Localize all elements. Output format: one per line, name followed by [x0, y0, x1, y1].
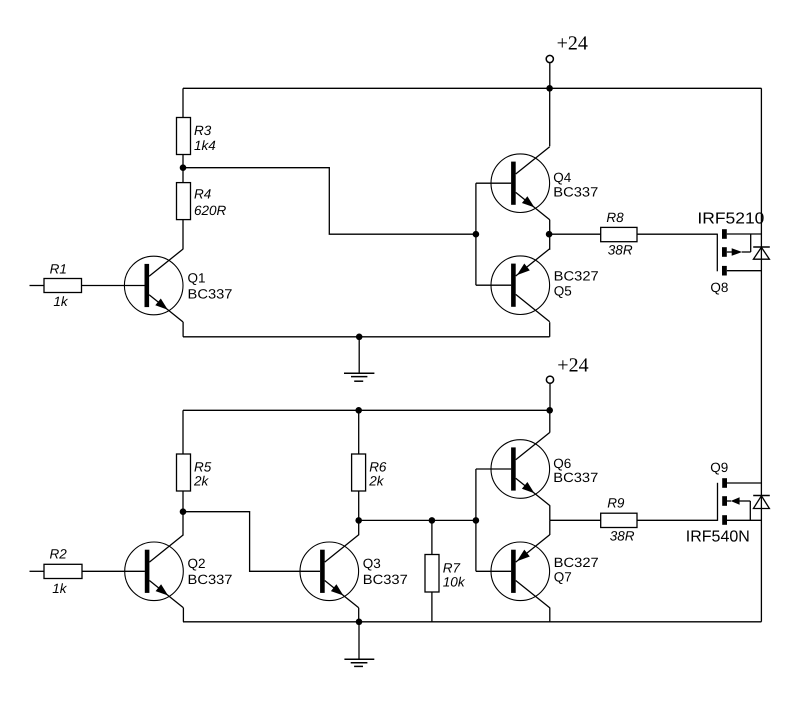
svg-text:Q1: Q1: [188, 270, 206, 285]
wire: R7 column top: [431, 520, 433, 555]
wire: rail to R3: [182, 88, 184, 118]
wire: R6 column: [358, 410, 360, 454]
wire: +24 to Q4 collector: [549, 88, 551, 146]
resistor R2: [44, 547, 82, 596]
svg-text:Q5: Q5: [554, 284, 572, 299]
node: push-pull output (top): [546, 231, 553, 238]
svg-text:R3: R3: [194, 123, 212, 138]
svg-text:IRF5210: IRF5210: [697, 211, 764, 228]
wire: supply rail (bottom section): [183, 409, 550, 411]
diode: Q9 body diode: [753, 496, 770, 509]
svg-text:10k: 10k: [443, 575, 466, 590]
transistor Q1: [124, 249, 232, 322]
wire: Q7 collector to bottom rail: [549, 608, 551, 622]
supply terminal +24 (bottom): [546, 354, 588, 410]
wire: Q3 collector up to node: [358, 520, 360, 535]
wire: R3/R4 node to Q4/Q5 base rail: [183, 168, 476, 235]
svg-text:Q3: Q3: [363, 556, 381, 571]
node: +24 bottom junction: [546, 407, 553, 414]
svg-text:BC337: BC337: [188, 572, 233, 587]
svg-text:1k: 1k: [52, 581, 68, 596]
wire: Q1 emitter to ground rail: [182, 322, 184, 337]
svg-text:R4: R4: [194, 186, 211, 201]
svg-text:IRF540N: IRF540N: [686, 529, 750, 546]
wire: base stub Q6: [476, 468, 511, 470]
svg-text:2k: 2k: [368, 474, 385, 489]
node: +24 top junction: [546, 85, 553, 92]
node: R7 top junction: [429, 517, 436, 524]
wire: R7 to bottom rail: [431, 592, 433, 622]
svg-text:38R: 38R: [610, 528, 635, 543]
svg-text:+24: +24: [557, 33, 588, 55]
wire: R1 to Q1 base: [82, 285, 145, 287]
wire: R4 to Q1 collector: [182, 220, 184, 250]
wire: bottom ground rail: [183, 621, 761, 623]
svg-text:R7: R7: [443, 561, 461, 576]
node: ground tap (top): [356, 334, 363, 341]
transistor Q3: [300, 535, 408, 608]
svg-text:1k4: 1k4: [194, 138, 216, 153]
svg-text:R1: R1: [50, 261, 67, 276]
node: base feed junction (bottom): [473, 517, 480, 524]
wire: output to Q7 emitter: [549, 520, 551, 535]
wire: Q3 emitter to bottom rail: [358, 608, 360, 622]
wire: junction line to base rail (bottom): [359, 519, 476, 521]
wire: R8 to Q8 gate: [637, 233, 717, 235]
wire: right rail: [760, 88, 762, 622]
ground (bottom): [344, 622, 374, 667]
resistor R3: [177, 118, 216, 155]
wire: R1 input stub: [30, 285, 45, 287]
node: ground tap (bottom): [356, 619, 363, 626]
wire: base stub Q4: [476, 182, 511, 184]
resistor R9: [601, 495, 637, 543]
resistor R7: [425, 555, 466, 593]
wire: base stub Q7: [476, 570, 511, 572]
svg-text:BC337: BC337: [553, 470, 598, 485]
wire: Q4 emitter to output node: [549, 220, 551, 250]
resistor R5: [177, 454, 212, 491]
node: R3/R4 junction: [180, 164, 187, 171]
transistor Q7: [491, 535, 599, 608]
resistor R6: [352, 454, 387, 491]
svg-text:R8: R8: [606, 210, 624, 225]
wire: R2 to Q2 base: [82, 570, 145, 572]
wire: base stub Q5: [476, 284, 511, 286]
svg-text:620R: 620R: [194, 203, 227, 218]
svg-text:Q8: Q8: [710, 280, 728, 295]
node: base feed junction (top): [473, 231, 480, 238]
svg-text:BC327: BC327: [554, 269, 599, 284]
wire: emitter/ground rail (top section): [183, 336, 550, 338]
resistor R1: [44, 261, 82, 309]
mosfet Q8 IRF5210: [697, 211, 764, 296]
svg-text:BC337: BC337: [188, 286, 233, 301]
svg-text:Q6: Q6: [553, 456, 571, 471]
svg-text:Q9: Q9: [710, 460, 728, 475]
svg-text:R9: R9: [607, 495, 625, 510]
resistor R4: [177, 183, 227, 220]
wire: +24 to Q6 collector: [549, 410, 551, 432]
mosfet Q9 IRF540N: [686, 460, 762, 546]
wire: Q4/Q5 base rail: [475, 183, 477, 285]
transistor Q4: [491, 147, 598, 220]
diode: Q8 body diode: [753, 247, 770, 259]
transistor Q6: [491, 433, 598, 506]
transistor Q5: [491, 249, 599, 322]
node: R5/Q2 collector junction: [180, 508, 187, 515]
wire: R9 to Q9 gate: [637, 519, 718, 521]
node: R6 top junction: [355, 407, 362, 414]
wire: output to R8: [549, 233, 601, 235]
wire: output to R9: [550, 519, 601, 521]
wire: R6 to junction: [358, 491, 360, 520]
svg-text:BC337: BC337: [363, 572, 408, 587]
wire: Q6/Q7 base rail: [475, 469, 477, 571]
resistor R8: [601, 210, 637, 258]
ground (top): [344, 337, 374, 381]
node: R6/Q3 collector junction: [355, 517, 362, 524]
wire: R2 input stub: [30, 570, 45, 572]
wire: R3 to R4: [182, 155, 184, 184]
wire: R5 to Q2 collector: [182, 491, 184, 535]
svg-text:R6: R6: [369, 460, 387, 475]
svg-text:2k: 2k: [193, 474, 210, 489]
svg-text:+24: +24: [557, 354, 588, 376]
svg-text:38R: 38R: [608, 243, 633, 258]
svg-text:Q7: Q7: [554, 570, 572, 585]
wire: Q2 collector to Q3 base: [183, 512, 320, 572]
transistor Q2: [125, 535, 233, 608]
wire: Q2 emitter to bottom rail: [182, 608, 184, 622]
svg-text:R2: R2: [50, 547, 68, 562]
wire: rail to R5: [182, 410, 184, 454]
svg-text:BC327: BC327: [554, 555, 599, 570]
wire: Q5 collector down: [549, 322, 551, 337]
svg-text:1k: 1k: [53, 294, 69, 309]
wire: Q6 emitter to output: [549, 505, 551, 520]
supply terminal +24 (top): [546, 33, 588, 89]
svg-text:BC337: BC337: [553, 184, 598, 199]
svg-text:R5: R5: [194, 460, 212, 475]
svg-text:Q4: Q4: [553, 170, 572, 185]
wire: +24 top rail: [183, 87, 761, 89]
svg-text:Q2: Q2: [188, 556, 206, 571]
